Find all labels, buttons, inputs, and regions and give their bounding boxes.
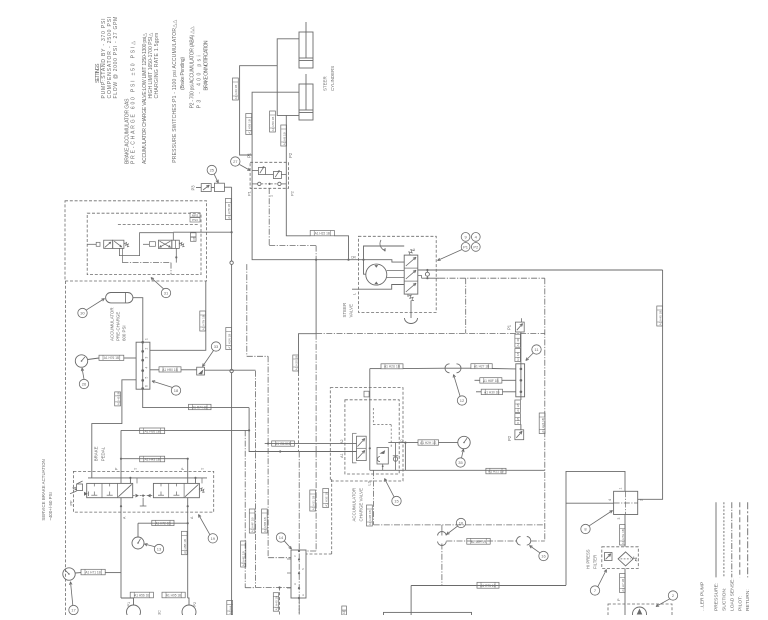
hose tag A1 H56 1B xyxy=(130,592,153,598)
wire tag to check xyxy=(181,369,197,371)
svg-text:MR3: MR3 xyxy=(192,213,199,217)
hose tag A1 R74 1B xyxy=(189,404,212,409)
LS out dash-dot xyxy=(374,470,545,525)
svg-text:A1 H5: A1 H5 xyxy=(516,403,520,412)
hose tag A1 H2B 1B on LS xyxy=(367,505,373,526)
svg-text:A1 H3E 1B: A1 H3E 1B xyxy=(324,492,328,507)
relief drain dash-dot xyxy=(269,188,316,260)
svg-text:25: 25 xyxy=(210,168,215,173)
svg-text:A1 H21 1B: A1 H21 1B xyxy=(488,470,503,474)
hose tag A1 H2U 1B xyxy=(381,364,403,369)
hose tag A1 H40 1B xyxy=(273,593,278,612)
svg-text:A1 R74 1B: A1 R74 1B xyxy=(192,406,207,410)
svg-text:1: 1 xyxy=(294,554,296,558)
spool stem and hand arc xyxy=(405,301,418,324)
hose tag A1 H20 1B xyxy=(293,355,299,371)
tank line x316 down xyxy=(315,260,317,334)
wire R74 drop to charge valve A1 xyxy=(249,408,356,452)
svg-text:PS3: PS3 xyxy=(192,218,198,222)
riser P right xyxy=(187,459,189,484)
hose tag A1 H76 1B xyxy=(99,355,124,360)
svg-text:4: 4 xyxy=(475,234,478,239)
wire H95 brake supply xyxy=(121,429,249,431)
gerotor to spool links xyxy=(387,271,404,278)
right section spring xyxy=(199,488,204,493)
hose tag A1 H95 1B brake2 xyxy=(162,592,185,598)
pump enclosure dashed xyxy=(608,604,672,620)
wire cyl1 head to left riser xyxy=(277,39,299,116)
svg-text:A1 H72 1B: A1 H72 1B xyxy=(155,521,170,525)
svg-text:A1 G5-51B: A1 G5-51B xyxy=(275,442,291,446)
junction dots on A1 run xyxy=(248,429,281,452)
svg-text:A1 H2B 1B: A1 H2B 1B xyxy=(368,510,372,525)
quick disconnect pair steering supply xyxy=(445,364,463,373)
gauge port3 xyxy=(75,355,99,367)
svg-text:26: 26 xyxy=(82,382,87,387)
svg-text:16: 16 xyxy=(459,521,464,526)
svg-text:A1 R75 1B: A1 R75 1B xyxy=(480,584,495,588)
balloon 31 xyxy=(151,278,171,298)
relief valve cartridge left xyxy=(252,166,265,175)
gerotor feedback loop xyxy=(362,246,404,274)
drain x268 down to bottom manifold xyxy=(268,356,291,557)
svg-text:A1 H15 1B: A1 H15 1B xyxy=(315,232,330,236)
svg-text:A1 H7H 1B: A1 H7H 1B xyxy=(621,529,625,544)
hose tag A1 H27 1B xyxy=(471,364,492,369)
SV2 outlet wire to riser xyxy=(173,231,231,233)
svg-text:P3 - 400 psi: P3 - 400 psi xyxy=(197,55,203,108)
wire A2 feed xyxy=(265,443,357,445)
svg-text:A1 H95 1B: A1 H95 1B xyxy=(144,429,159,433)
solenoid valve SV2 xyxy=(143,240,185,248)
svg-text:18: 18 xyxy=(174,388,179,393)
svg-text:A1 H24 1B: A1 H24 1B xyxy=(541,418,545,433)
svg-text:1: 1 xyxy=(270,195,274,197)
svg-text:A1 H2H 1G: A1 H2H 1G xyxy=(420,441,437,445)
brake actuator circle P2 xyxy=(182,602,197,619)
port tag FB xyxy=(191,233,197,242)
gauge service brake left xyxy=(63,568,81,580)
x298 dashed continuation xyxy=(298,373,300,452)
wire gauge to A1 line xyxy=(105,572,121,574)
hose tag A1 H15 1B xyxy=(310,231,334,236)
hose tag A1 H7H 1B xyxy=(620,525,626,545)
hose tag A1 H7 1B xyxy=(620,574,626,593)
junction dot x316 xyxy=(315,259,317,261)
svg-text:FILTER: FILTER xyxy=(593,555,598,569)
balloon 14 xyxy=(276,533,291,549)
svg-text:2: 2 xyxy=(672,593,675,598)
svg-text:27: 27 xyxy=(233,159,238,164)
label accumulator precharge xyxy=(110,307,127,341)
svg-text:A1 H56 1B: A1 H56 1B xyxy=(134,594,149,598)
balloon 16 qd1 xyxy=(447,518,466,534)
drop x279 lower xyxy=(278,586,280,615)
relief assembly drain gallery xyxy=(252,183,286,185)
svg-text:6: 6 xyxy=(145,385,149,387)
balloon 30 xyxy=(78,299,105,318)
label HI PRESS FILTER xyxy=(586,549,598,569)
svg-text:SERVICE BRAKE ACTUATION: SERVICE BRAKE ACTUATION xyxy=(41,459,46,520)
hose tag A1 H71 1B xyxy=(81,569,105,575)
hose tag A1 H90 1B xyxy=(159,367,181,372)
svg-text:B1 50H 1V: B1 50H 1V xyxy=(471,540,487,544)
svg-text:D: D xyxy=(400,439,404,442)
svg-text:8: 8 xyxy=(584,527,587,532)
svg-text:P3: P3 xyxy=(191,185,196,191)
label PS3 tag xyxy=(190,218,200,223)
port symbol on pressure line xyxy=(425,269,429,279)
balloon 18 xyxy=(152,381,181,396)
svg-text:P2: P2 xyxy=(193,602,197,607)
svg-text:3C: 3C xyxy=(158,610,162,615)
drop x245 from H95 xyxy=(245,430,255,587)
svg-text:A1 H4: A1 H4 xyxy=(228,606,232,615)
legend line samples xyxy=(716,502,748,577)
drop x255 from port4 branch xyxy=(256,371,292,588)
svg-text:A1 H7N 1B: A1 H7N 1B xyxy=(201,315,205,330)
PP entry arrow xyxy=(84,492,89,497)
svg-text:2: 2 xyxy=(640,499,644,501)
svg-text:A1 H95 1B: A1 H95 1B xyxy=(166,594,181,598)
svg-text:3: 3 xyxy=(617,518,621,520)
x299 bottom continues xyxy=(298,598,300,615)
P1 steer feed riser xyxy=(252,188,404,262)
supply node riser xyxy=(364,369,371,471)
solenoid valve SV1 xyxy=(87,240,129,248)
wire port6 return R74 xyxy=(143,389,249,408)
svg-text:0 1B: 0 1B xyxy=(516,418,520,424)
pedal linkage xyxy=(133,494,154,506)
svg-text:2: 2 xyxy=(302,567,304,571)
svg-text:P1: P1 xyxy=(247,190,252,196)
valve feed gallery xyxy=(88,477,207,484)
balloon 13 xyxy=(145,543,164,553)
svg-text:A: A xyxy=(123,516,127,519)
label SERVICE BRAKE ACTUATION xyxy=(41,459,53,520)
hose tag A1 H8F 1B xyxy=(475,378,516,383)
junction dot x348 xyxy=(347,259,349,261)
svg-text:A1 H7B 1B: A1 H7B 1B xyxy=(227,204,231,219)
quick disconnect pair vertical xyxy=(438,532,447,546)
charge solenoid valve xyxy=(353,433,367,463)
svg-text:L: L xyxy=(353,293,357,295)
gauge accumulator pressure xyxy=(458,436,470,448)
svg-text:PRESSURE SWITCHES:P1 - 1100 ps: PRESSURE SWITCHES:P1 - 1100 psi ACCUMULA… xyxy=(172,20,178,163)
svg-text:600 PSI: 600 PSI xyxy=(122,325,127,341)
hose tag on riser A1 H7B 1B xyxy=(225,199,231,220)
svg-text:A1 H27 1B: A1 H27 1B xyxy=(474,365,489,369)
hose tag vertical on A2 xyxy=(182,531,188,554)
port circle P1 xyxy=(258,182,261,185)
svg-text:A1 H2N 1B: A1 H2N 1B xyxy=(227,334,231,349)
svg-text:12: 12 xyxy=(460,398,465,403)
wire block port1 loop xyxy=(566,471,625,585)
svg-text:P: P xyxy=(181,467,185,470)
hose tag A1 H45 1B on frame line xyxy=(657,306,663,326)
brake valve section left xyxy=(87,483,133,497)
svg-text:1: 1 xyxy=(145,338,149,340)
wire H43 xyxy=(120,458,189,460)
balloon 7 xyxy=(590,570,606,596)
LS trunk dash-dot y333 xyxy=(316,333,545,335)
svg-text:A1 H76 1B: A1 H76 1B xyxy=(104,356,119,360)
svg-text:VALVE: VALVE xyxy=(349,304,354,318)
label MR3 tag xyxy=(190,213,200,218)
wire port5 to brake pedal feed xyxy=(92,380,137,478)
steer valve drain gallery xyxy=(352,285,404,290)
charge valve bottom gallery xyxy=(370,464,406,470)
svg-text:LOAD SENSE:: LOAD SENSE: xyxy=(729,578,735,611)
svg-text:A1 H43 1B: A1 H43 1B xyxy=(144,458,159,462)
svg-text:30: 30 xyxy=(80,311,85,316)
pedal actuator glyph xyxy=(70,481,83,494)
QD branch drop x441 xyxy=(441,525,443,532)
balloon 17 left gauge xyxy=(69,582,78,615)
svg-text:H1 1B: H1 1B xyxy=(516,352,520,360)
port block 4-way xyxy=(608,488,644,520)
svg-text:STEER: STEER xyxy=(342,303,347,318)
gauge brake pressure xyxy=(132,523,144,549)
svg-text:A1 H4F 1B: A1 H4F 1B xyxy=(251,518,255,533)
return line R75 xyxy=(411,586,566,616)
svg-text:P1: P1 xyxy=(507,324,512,330)
drain jog x247 to x268 xyxy=(247,264,268,356)
svg-text:19: 19 xyxy=(211,536,216,541)
svg-text:A1: A1 xyxy=(342,610,346,614)
brake pedal valve dashed box xyxy=(73,471,213,512)
svg-text:4: 4 xyxy=(145,367,149,369)
pressure switch P2 lower xyxy=(515,397,524,440)
svg-text:A1 H71 1B: A1 H71 1B xyxy=(85,571,100,575)
main riser x231 lower xyxy=(227,450,233,615)
svg-text:DR: DR xyxy=(351,256,356,260)
svg-text:LS: LS xyxy=(368,480,372,485)
svg-text:FLOW @ 2000 PSI - 27 GPM: FLOW @ 2000 PSI - 27 GPM xyxy=(113,17,119,99)
svg-text:(Brake Pending): (Brake Pending) xyxy=(180,57,186,90)
wire port4 to check valve xyxy=(150,369,159,371)
svg-text:CYLINDERS: CYLINDERS xyxy=(330,66,335,91)
svg-text:31: 31 xyxy=(164,291,169,296)
wire accumulator to manifold xyxy=(133,298,143,343)
hose tag A1 H2H 1G xyxy=(418,440,439,445)
svg-text:BRAKE ON NOTIFICATION: BRAKE ON NOTIFICATION xyxy=(204,40,210,90)
junction drain dot xyxy=(268,183,270,185)
svg-text:9: 9 xyxy=(464,234,467,239)
junction dot solenoid feed xyxy=(231,231,233,233)
svg-text:~400+/-50 PSI: ~400+/-50 PSI xyxy=(48,492,53,520)
hose tag A1 H2N 1B xyxy=(226,328,232,350)
svg-text:A1 H7 1B: A1 H7 1B xyxy=(621,579,625,592)
svg-text:P1: P1 xyxy=(127,602,131,607)
check valve block xyxy=(197,367,205,375)
svg-text:P2: P2 xyxy=(288,152,293,158)
settings notes text block xyxy=(95,17,210,164)
hose tag A1 H50 1B xyxy=(270,111,276,132)
wire check valve east run xyxy=(205,369,256,371)
steering column arrow xyxy=(380,240,385,251)
svg-text:P2: P2 xyxy=(290,190,295,196)
brake actuator circle P1 xyxy=(127,602,141,619)
ABA inner partition dashes xyxy=(118,224,199,226)
riser P left xyxy=(120,430,122,483)
hose tag A1 H30 1B xyxy=(476,389,516,394)
wire H72 xyxy=(138,522,188,524)
branch x316 to x298 xyxy=(299,334,317,373)
pressure line to frame right xyxy=(418,269,663,271)
svg-text:BRAKE: BRAKE xyxy=(94,446,99,461)
tank box bottom xyxy=(384,612,472,620)
P2 steer feed with tag xyxy=(286,188,310,236)
svg-text:T: T xyxy=(201,467,205,470)
svg-text:PILOT:: PILOT: xyxy=(737,596,743,611)
wire to P1 manifold xyxy=(463,367,471,369)
hose tag A1 H24 1B on LS trunk xyxy=(539,413,545,434)
svg-text:4: 4 xyxy=(608,499,612,501)
svg-text:P2: P2 xyxy=(507,435,512,441)
QD lateral y541 xyxy=(446,540,516,542)
balloon 19 xyxy=(199,515,218,544)
port2 pilot wire up to enclosure xyxy=(150,281,206,350)
svg-text:A1 H30 1B: A1 H30 1B xyxy=(484,390,499,394)
charge check valve xyxy=(393,443,398,471)
svg-text:P2: P2 xyxy=(473,244,479,249)
balloon 12 xyxy=(453,375,467,406)
svg-text:1: 1 xyxy=(619,488,623,490)
svg-text:SUCTION:: SUCTION: xyxy=(721,588,727,611)
svg-text:A1 40: A1 40 xyxy=(516,338,520,346)
pump symbol xyxy=(633,607,647,620)
svg-text:A: A xyxy=(190,516,194,519)
pressure switch P1 top xyxy=(515,318,524,364)
svg-text:HI PRESS: HI PRESS xyxy=(586,549,591,569)
frame pressure line right vertical xyxy=(638,270,663,499)
balloon 35 xyxy=(456,449,465,467)
brake accumulator xyxy=(106,293,133,303)
hose tag A1 H43 1B xyxy=(140,456,165,462)
svg-text:15: 15 xyxy=(394,499,399,504)
charge valve outer dashed box xyxy=(330,388,403,481)
svg-text:P: P xyxy=(617,598,621,601)
balloon 8 xyxy=(581,511,613,534)
balloon 26 xyxy=(79,368,88,389)
svg-text:RETURN:: RETURN: xyxy=(745,589,751,611)
wire cyl1 rod side to P1 riser xyxy=(240,66,278,188)
drain header dash-dot xyxy=(122,263,171,275)
P1 switch manifold block xyxy=(516,364,525,397)
svg-text:T: T xyxy=(134,467,138,470)
hose tag A1 H31 1B xyxy=(310,490,316,511)
svg-text:35: 35 xyxy=(458,460,463,465)
balloon 33 xyxy=(203,342,221,367)
svg-text:HIGH LIMIT 1650-1700 PSI△: HIGH LIMIT 1650-1700 PSI△ xyxy=(148,33,154,99)
svg-text:A1 H2U 1B: A1 H2U 1B xyxy=(384,365,400,369)
svg-text:11: 11 xyxy=(534,347,539,352)
wire P3 to main riser xyxy=(224,186,231,188)
hose tag A1 H5B 1B xyxy=(262,509,268,533)
wire run to coupling xyxy=(370,368,381,370)
svg-text:P1: P1 xyxy=(463,244,469,249)
ABA enclosure mid dashed box xyxy=(87,213,201,274)
svg-text:7: 7 xyxy=(594,588,597,593)
charge cartridge valve xyxy=(377,448,388,468)
svg-text:COMPENSATOR - 2500 PSI: COMPENSATOR - 2500 PSI xyxy=(107,17,113,99)
svg-text:3: 3 xyxy=(145,357,149,359)
spool spring top xyxy=(408,249,414,256)
bottom manifold block xyxy=(287,550,306,599)
main riser x231 upper xyxy=(230,187,233,450)
bottom edge tag stub xyxy=(342,606,347,615)
svg-text:A1: A1 xyxy=(340,453,344,458)
wire cyl2 head to riser x252 xyxy=(252,92,299,155)
filter element xyxy=(618,552,637,566)
svg-text:...LER PUMP: ...LER PUMP xyxy=(700,582,706,611)
svg-text:PEDAL: PEDAL xyxy=(101,446,106,461)
svg-text:PRE-CHARGE 600 PSI ±50 PSI△: PRE-CHARGE 600 PSI ±50 PSI△ xyxy=(131,41,137,164)
SV2 drain xyxy=(175,248,177,262)
LS line from steer valve xyxy=(422,277,545,279)
hose tag A1 H4E 1B xyxy=(241,541,246,567)
hose tag A1 G5-51B xyxy=(272,441,295,446)
svg-text:A1 H8B 1B: A1 H8B 1B xyxy=(183,539,187,554)
wire block port3 down xyxy=(624,515,626,547)
svg-text:13: 13 xyxy=(157,547,162,552)
LS trunk x544 down xyxy=(544,278,546,541)
balloon cluster steer valve xyxy=(438,233,481,261)
svg-text:A1 H50 1B: A1 H50 1B xyxy=(271,117,275,132)
P T labels above valve xyxy=(115,467,206,470)
svg-text:14: 14 xyxy=(279,535,284,540)
filter bypass valve xyxy=(605,553,613,561)
balloon 25 xyxy=(207,165,218,183)
charge valve inner dashed box xyxy=(345,400,399,474)
svg-text:P2 - 700 psi ACCUMULATOR (ABA): P2 - 700 psi ACCUMULATOR (ABA) △△ xyxy=(190,26,196,108)
hose tag A1 H49 1B xyxy=(233,78,239,100)
pressure switch P3 xyxy=(196,184,211,192)
brake manifold block xyxy=(136,338,150,390)
balloon 2 xyxy=(656,591,678,607)
charge valve outlet y471 xyxy=(405,469,544,471)
label ACCUMULATOR CHARGE VALVE xyxy=(352,488,364,522)
balloon 15 xyxy=(385,479,402,506)
hose tag A1 H4F 1B xyxy=(249,509,255,533)
hose tag on port5 drop xyxy=(115,392,121,406)
steer cylinder 1 xyxy=(299,22,313,68)
ABA enclosure outer dashed box xyxy=(65,201,207,281)
balloon 16 qd2 xyxy=(530,546,549,561)
label STEER CYLINDERS xyxy=(323,66,336,91)
svg-text:ACCUMULATOR: ACCUMULATOR xyxy=(110,307,115,341)
wire cyl2 rod to P2 riser xyxy=(285,115,287,188)
gerotor metering unit xyxy=(366,264,387,285)
svg-text:P1: P1 xyxy=(247,152,252,158)
junction dot A2 xyxy=(267,443,269,445)
svg-text:P: P xyxy=(115,467,119,470)
label BRAKE PEDAL xyxy=(94,446,106,461)
svg-text:A1 H8F 1B: A1 H8F 1B xyxy=(483,379,499,383)
svg-text:33: 33 xyxy=(214,344,219,349)
balloon 27 xyxy=(231,157,251,171)
hose tag A1 H3E 1B xyxy=(323,489,329,508)
brake valve section right xyxy=(153,483,199,497)
svg-text:A1 H9 1B: A1 H9 1B xyxy=(116,392,120,405)
svg-text:17: 17 xyxy=(71,608,76,613)
port circle P2 xyxy=(278,182,281,185)
relief valve cartridge right xyxy=(265,170,286,179)
x316 dash-dot continuation down xyxy=(315,334,317,452)
steer valve dashed enclosure xyxy=(358,236,436,312)
svg-text:ACCUMULATOR: ACCUMULATOR xyxy=(352,488,357,522)
